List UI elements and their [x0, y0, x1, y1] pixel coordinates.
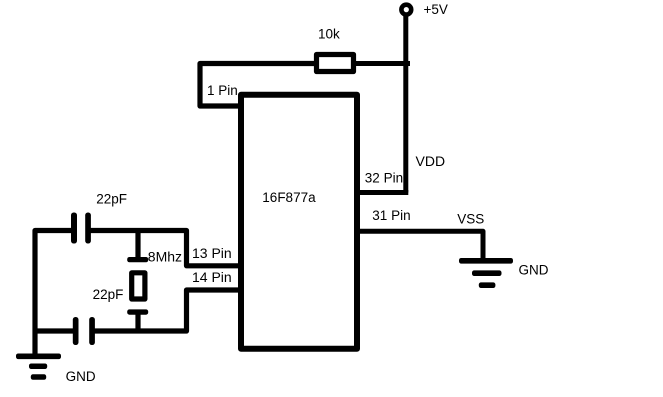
svg-text:VSS: VSS — [457, 211, 484, 226]
wire resistor right to +5V rail — [354, 61, 410, 66]
crystal X1 body — [132, 273, 145, 299]
capacitor C2 22pF bottom right plate — [89, 317, 95, 345]
svg-text:14 Pin: 14 Pin — [192, 269, 232, 285]
wire top cap to 13 Pin — [91, 231, 241, 266]
ground right bar2 — [472, 270, 502, 276]
wire 32 Pin to +5V rail — [356, 190, 408, 195]
svg-text:13 Pin: 13 Pin — [192, 245, 232, 261]
wire crystal top tap — [135, 231, 140, 260]
svg-text:1 Pin: 1 Pin — [207, 83, 238, 98]
ground right bar3 — [479, 282, 496, 288]
capacitor C2 22pF bottom left plate — [73, 317, 79, 345]
crystal X1 top plate — [127, 257, 148, 262]
svg-text:8Mhz: 8Mhz — [148, 249, 182, 265]
svg-text:GND: GND — [66, 369, 96, 384]
wire crystal bottom tap — [135, 312, 140, 333]
resistor R1 10k — [317, 55, 354, 72]
ground left bar3 — [31, 374, 46, 380]
crystal X1 bottom plate — [127, 309, 148, 314]
svg-text:+5V: +5V — [424, 2, 448, 17]
terminal +5V — [401, 5, 411, 15]
ground right bar1 — [459, 258, 513, 264]
wire 1 Pin L (resistor left, down, to chip) — [200, 64, 316, 107]
svg-text:16F877a: 16F877a — [262, 190, 316, 205]
svg-text:22pF: 22pF — [96, 191, 127, 206]
capacitor C1 22pF top left plate — [71, 213, 77, 244]
ground left bar2 — [29, 364, 47, 370]
op-amp U1 chip 16F877a box — [241, 95, 357, 349]
ground left bar1 — [16, 354, 61, 360]
svg-text:32 Pin: 32 Pin — [365, 170, 403, 185]
svg-text:22pF: 22pF — [93, 287, 124, 302]
svg-text:10k: 10k — [318, 27, 340, 42]
wire bottom cap to left rail — [33, 328, 76, 333]
svg-text:GND: GND — [519, 262, 549, 277]
wire 31 Pin to ground — [356, 231, 483, 259]
svg-text:31 Pin: 31 Pin — [372, 208, 410, 223]
capacitor C1 22pF top right plate — [85, 213, 91, 244]
wire 14 Pin to bottom cap — [92, 290, 240, 331]
svg-text:VDD: VDD — [416, 153, 446, 169]
wire +5V rail vertical — [403, 14, 408, 193]
wire left rail (top cap wire to left ground) — [35, 231, 72, 357]
